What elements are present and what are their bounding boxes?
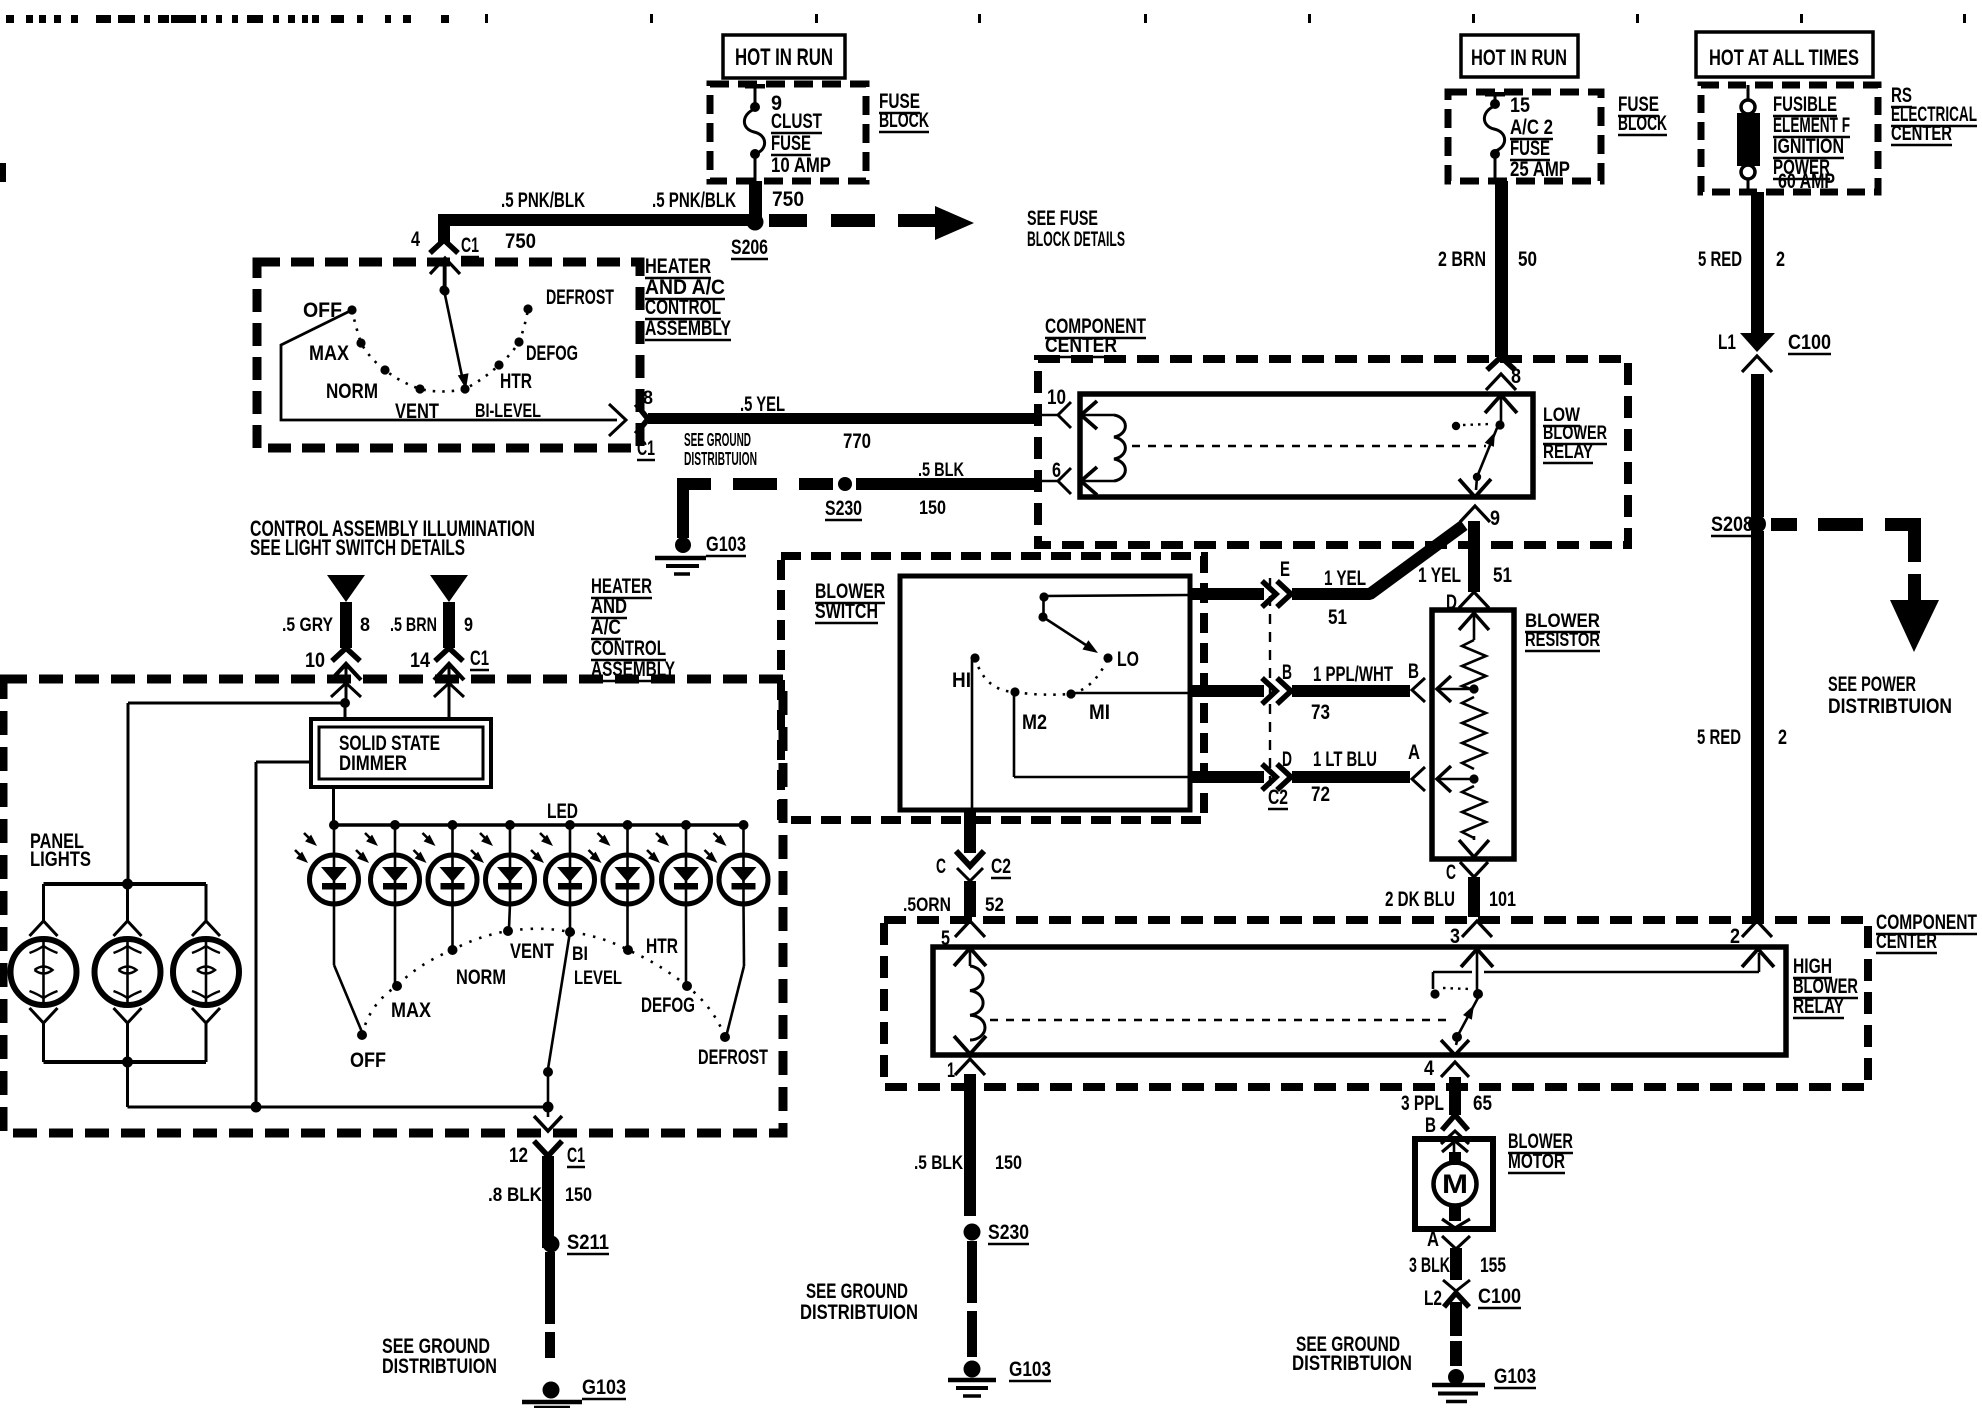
svg-text:CENTER: CENTER xyxy=(1876,930,1937,953)
svg-text:C1: C1 xyxy=(637,437,655,460)
svg-text:FUSE: FUSE xyxy=(1510,137,1550,160)
svg-text:.5ORN: .5ORN xyxy=(903,894,951,916)
svg-text:S211: S211 xyxy=(567,1231,609,1254)
svg-text:10: 10 xyxy=(305,649,325,672)
svg-text:51: 51 xyxy=(1493,564,1512,587)
svg-text:10: 10 xyxy=(1047,386,1066,409)
svg-text:65: 65 xyxy=(1473,1092,1492,1115)
svg-text:HTR: HTR xyxy=(646,935,678,958)
svg-text:2: 2 xyxy=(1776,248,1785,271)
svg-text:B: B xyxy=(1425,1114,1436,1137)
svg-text:9: 9 xyxy=(1490,507,1500,530)
svg-text:AND: AND xyxy=(591,595,627,618)
svg-text:G103: G103 xyxy=(1009,1358,1051,1381)
svg-text:HOT AT ALL TIMES: HOT AT ALL TIMES xyxy=(1709,45,1859,70)
svg-text:S230: S230 xyxy=(825,497,862,520)
svg-text:2: 2 xyxy=(1730,925,1740,948)
svg-text:VENT: VENT xyxy=(510,940,554,963)
svg-text:RELAY: RELAY xyxy=(1543,441,1593,463)
svg-text:B: B xyxy=(1282,661,1292,684)
svg-text:.5 BRN: .5 BRN xyxy=(390,614,437,636)
svg-text:A/C: A/C xyxy=(591,616,621,639)
svg-text:NORM: NORM xyxy=(456,966,506,989)
svg-text:DISTRIBTUION: DISTRIBTUION xyxy=(1828,695,1952,718)
svg-text:.5 PNK/BLK: .5 PNK/BLK xyxy=(652,189,736,212)
svg-text:10 AMP: 10 AMP xyxy=(771,154,831,177)
svg-text:2: 2 xyxy=(1778,726,1787,749)
svg-text:4: 4 xyxy=(1424,1057,1434,1080)
svg-text:51: 51 xyxy=(1328,606,1347,629)
svg-text:BI: BI xyxy=(572,943,588,965)
svg-text:CONTROL: CONTROL xyxy=(645,296,721,319)
svg-text:A: A xyxy=(1408,741,1420,764)
svg-text:73: 73 xyxy=(1311,701,1330,724)
svg-text:.5 BLK: .5 BLK xyxy=(914,1152,963,1174)
svg-text:C2: C2 xyxy=(991,855,1011,878)
svg-text:NORM: NORM xyxy=(326,380,378,403)
svg-text:MOTOR: MOTOR xyxy=(1508,1150,1565,1173)
svg-text:8: 8 xyxy=(643,387,653,409)
svg-text:DIMMER: DIMMER xyxy=(339,752,407,775)
svg-text:25 AMP: 25 AMP xyxy=(1510,158,1570,181)
svg-text:1 LT BLU: 1 LT BLU xyxy=(1313,748,1377,771)
svg-text:5 RED: 5 RED xyxy=(1698,248,1742,271)
svg-text:OFF: OFF xyxy=(303,299,342,322)
svg-text:6: 6 xyxy=(1052,459,1061,482)
svg-text:101: 101 xyxy=(1489,888,1516,911)
svg-text:C100: C100 xyxy=(1788,331,1831,354)
svg-text:LIGHTS: LIGHTS xyxy=(30,848,91,871)
svg-text:G103: G103 xyxy=(1494,1365,1536,1388)
svg-text:8: 8 xyxy=(360,614,370,636)
svg-text:HI: HI xyxy=(952,669,971,692)
svg-text:ASSEMBLY: ASSEMBLY xyxy=(645,317,731,340)
svg-text:DEFROST: DEFROST xyxy=(546,286,614,309)
svg-text:G103: G103 xyxy=(582,1376,626,1399)
svg-text:SEE GROUND: SEE GROUND xyxy=(684,430,751,450)
svg-text:1 YEL: 1 YEL xyxy=(1324,567,1366,590)
svg-text:VENT: VENT xyxy=(395,400,439,423)
svg-text:750: 750 xyxy=(772,188,804,211)
svg-text:CENTER: CENTER xyxy=(1891,122,1952,145)
svg-text:C1: C1 xyxy=(461,234,479,257)
svg-text:OFF: OFF xyxy=(350,1049,386,1072)
svg-text:S230: S230 xyxy=(988,1221,1029,1244)
svg-text:LEVEL: LEVEL xyxy=(574,967,622,989)
svg-text:150: 150 xyxy=(919,497,946,519)
svg-text:5 RED: 5 RED xyxy=(1697,726,1741,749)
svg-text:DISTRIBTUION: DISTRIBTUION xyxy=(1292,1352,1412,1375)
svg-text:BLOCK DETAILS: BLOCK DETAILS xyxy=(1027,228,1125,251)
svg-text:L1: L1 xyxy=(1718,331,1736,354)
svg-text:D: D xyxy=(1282,748,1292,771)
svg-text:HTR: HTR xyxy=(500,370,532,393)
svg-text:C100: C100 xyxy=(1478,1285,1521,1308)
svg-text:HOT IN RUN: HOT IN RUN xyxy=(1471,45,1567,70)
svg-text:8: 8 xyxy=(1511,365,1521,388)
svg-text:.5 GRY: .5 GRY xyxy=(282,614,333,636)
svg-text:DEFOG: DEFOG xyxy=(526,342,578,365)
svg-text:CLUST: CLUST xyxy=(771,110,822,133)
svg-text:3: 3 xyxy=(1450,925,1460,948)
svg-text:RESISTOR: RESISTOR xyxy=(1525,629,1600,651)
svg-text:1: 1 xyxy=(947,1059,955,1082)
svg-text:CONTROL: CONTROL xyxy=(591,637,666,660)
svg-text:3 PPL: 3 PPL xyxy=(1401,1092,1444,1115)
svg-text:LED: LED xyxy=(547,800,578,823)
svg-text:BI-LEVEL: BI-LEVEL xyxy=(475,400,541,422)
svg-text:SWITCH: SWITCH xyxy=(815,600,878,623)
svg-text:.8 BLK: .8 BLK xyxy=(488,1184,542,1206)
svg-text:FUSIBLE: FUSIBLE xyxy=(1773,93,1837,116)
svg-text:2 BRN: 2 BRN xyxy=(1438,248,1486,271)
svg-text:LO: LO xyxy=(1117,648,1139,671)
svg-text:C: C xyxy=(936,855,946,878)
svg-text:.5 YEL: .5 YEL xyxy=(740,393,785,416)
svg-text:IGNITION: IGNITION xyxy=(1773,135,1844,158)
svg-text:ELEMENT F: ELEMENT F xyxy=(1773,114,1850,137)
svg-text:770: 770 xyxy=(843,430,871,453)
svg-text:C: C xyxy=(1446,861,1456,884)
svg-text:DISTRIBTUION: DISTRIBTUION xyxy=(382,1355,497,1378)
svg-text:1 YEL: 1 YEL xyxy=(1418,564,1461,587)
svg-text:C2: C2 xyxy=(1268,786,1288,809)
svg-text:52: 52 xyxy=(985,894,1004,916)
svg-text:1 PPL/WHT: 1 PPL/WHT xyxy=(1313,663,1393,686)
svg-text:155: 155 xyxy=(1480,1254,1506,1277)
svg-text:A: A xyxy=(1427,1228,1439,1251)
svg-text:SEE LIGHT SWITCH DETAILS: SEE LIGHT SWITCH DETAILS xyxy=(250,535,465,560)
svg-text:72: 72 xyxy=(1311,783,1330,806)
svg-text:M2: M2 xyxy=(1022,711,1047,734)
svg-text:14: 14 xyxy=(410,649,430,672)
svg-text:S208: S208 xyxy=(1711,513,1753,536)
svg-text:9: 9 xyxy=(464,614,473,636)
svg-text:DEFOG: DEFOG xyxy=(641,994,695,1017)
svg-text:C1: C1 xyxy=(567,1144,585,1167)
svg-text:150: 150 xyxy=(565,1184,592,1206)
svg-text:DISTRIBTUION: DISTRIBTUION xyxy=(800,1301,918,1324)
svg-text:5: 5 xyxy=(941,927,950,950)
svg-text:12: 12 xyxy=(509,1144,528,1167)
svg-text:E: E xyxy=(1280,558,1290,581)
svg-text:60 AMP: 60 AMP xyxy=(1778,170,1835,193)
svg-text:15: 15 xyxy=(1510,94,1530,117)
svg-text:SEE FUSE: SEE FUSE xyxy=(1027,207,1098,230)
svg-text:SEE POWER: SEE POWER xyxy=(1828,673,1916,696)
svg-text:.5 PNK/BLK: .5 PNK/BLK xyxy=(501,189,585,212)
svg-text:MAX: MAX xyxy=(309,342,349,365)
svg-text:3 BLK: 3 BLK xyxy=(1409,1254,1450,1277)
svg-text:HOT IN RUN: HOT IN RUN xyxy=(735,45,833,71)
svg-text:L2: L2 xyxy=(1424,1287,1442,1310)
svg-text:DISTRIBTUION: DISTRIBTUION xyxy=(684,449,757,469)
svg-text:MI: MI xyxy=(1089,701,1110,724)
svg-text:MAX: MAX xyxy=(391,999,431,1022)
svg-text:150: 150 xyxy=(995,1152,1022,1174)
svg-text:ASSEMBLY: ASSEMBLY xyxy=(591,658,675,681)
svg-text:.5 BLK: .5 BLK xyxy=(918,459,964,481)
svg-text:4: 4 xyxy=(411,228,420,251)
svg-text:2 DK BLU: 2 DK BLU xyxy=(1385,888,1455,911)
svg-text:50: 50 xyxy=(1518,248,1537,271)
svg-text:CENTER: CENTER xyxy=(1045,334,1117,357)
svg-text:RELAY: RELAY xyxy=(1793,995,1844,1018)
svg-text:B: B xyxy=(1408,660,1419,683)
svg-text:BLOCK: BLOCK xyxy=(1618,112,1667,135)
svg-text:A/C 2: A/C 2 xyxy=(1510,116,1553,139)
svg-text:750: 750 xyxy=(505,230,536,253)
svg-text:M: M xyxy=(1442,1169,1468,1199)
svg-text:BLOCK: BLOCK xyxy=(879,109,929,132)
svg-text:SEE GROUND: SEE GROUND xyxy=(806,1280,908,1303)
svg-text:C1: C1 xyxy=(470,647,489,670)
svg-text:G103: G103 xyxy=(706,533,746,556)
svg-text:HEATER: HEATER xyxy=(645,255,711,278)
svg-text:S206: S206 xyxy=(731,236,768,259)
svg-text:FUSE: FUSE xyxy=(771,132,811,155)
svg-text:DEFROST: DEFROST xyxy=(698,1046,768,1069)
